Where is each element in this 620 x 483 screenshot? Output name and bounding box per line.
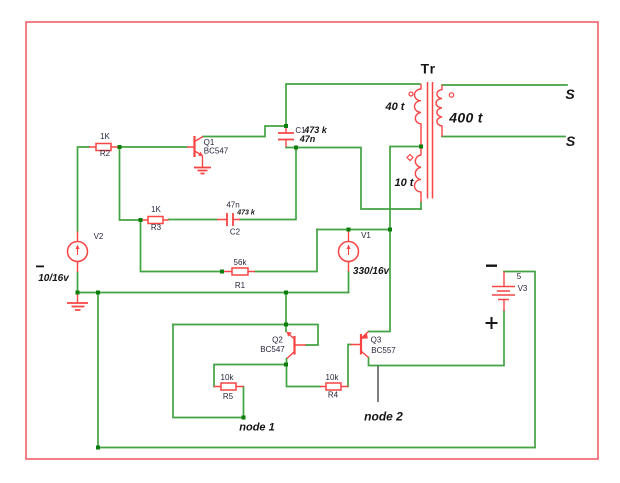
svg-text:56k: 56k [234, 258, 248, 267]
node C1 top junction [284, 124, 288, 128]
wire C1 bottom to 10t winding bottom [286, 148, 421, 210]
svg-text:BC557: BC557 [371, 346, 396, 355]
svg-text:BC547: BC547 [204, 147, 229, 156]
svg-text:330/16v: 330/16v [353, 266, 391, 277]
wire ground rail [78, 292, 349, 294]
resistor R1 [222, 268, 255, 275]
source V2 [68, 232, 88, 273]
wire long left vertical to bottom rail [97, 293, 99, 448]
node transformer center tap junction [419, 145, 423, 149]
svg-text:10 t: 10 t [395, 177, 415, 189]
wire right vertical up to V3 plus [504, 272, 535, 448]
svg-text:10k: 10k [221, 373, 235, 382]
capacitor C1 [278, 127, 294, 147]
wire transformer center tap to Q3 emitter [369, 147, 422, 332]
wire base row to Q1 [121, 146, 187, 148]
svg-text:S: S [566, 133, 576, 149]
svg-text:C2: C2 [230, 228, 241, 237]
node V1 top junction [347, 228, 351, 232]
wire R2 left corner and V2 top vertical [78, 147, 90, 232]
wire C1 junction down to C2 right [240, 148, 296, 220]
svg-text:1K: 1K [100, 132, 110, 141]
node bottom rail left junction [96, 446, 100, 450]
wire R3 junction down to R1 left [141, 220, 223, 272]
svg-text:node 1: node 1 [239, 422, 274, 434]
svg-text:473 k: 473 k [236, 210, 256, 217]
svg-text:40 t: 40 t [385, 101, 406, 113]
resistor R4 [320, 383, 348, 390]
svg-text:BC547: BC547 [260, 345, 285, 354]
resistor R3 [141, 217, 169, 224]
svg-text:1K: 1K [151, 205, 161, 214]
battery V3 [492, 272, 515, 312]
svg-text:R5: R5 [223, 392, 234, 401]
transistor Q2 [287, 332, 306, 359]
capacitor C2 [217, 213, 240, 226]
transformer winding 400t [436, 85, 442, 137]
wire secondary top rail to S [442, 84, 567, 86]
svg-text:S: S [565, 86, 575, 102]
source V1 [339, 231, 359, 272]
wire V2 bottom to ground rail [77, 272, 79, 293]
svg-text:47n: 47n [226, 201, 239, 210]
transformer Tr core [428, 82, 433, 199]
svg-text:Q3: Q3 [371, 336, 382, 345]
svg-text:V1: V1 [361, 231, 371, 240]
svg-text:R4: R4 [328, 391, 339, 400]
node R1 left junction [220, 270, 224, 274]
node C1 bottom junction [294, 146, 298, 150]
ground under V2 [67, 293, 88, 311]
wire Q2 base loop left and node1 bottom [173, 325, 244, 418]
battery V3 plus sign [486, 317, 498, 329]
wire bottom rail [98, 447, 535, 449]
wire ground rail down to Q2 emitter [285, 293, 287, 332]
battery V3 minus sign [486, 265, 497, 267]
svg-text:R2: R2 [100, 149, 111, 158]
ground under Q1 [194, 168, 211, 174]
node Q2 collector junction [284, 363, 288, 367]
node V1 row right junction [388, 228, 392, 232]
resistor R2 [89, 144, 119, 151]
svg-text:Q2: Q2 [272, 336, 283, 345]
wire Q2 collector down and R4 row [287, 359, 321, 387]
svg-text:Tr: Tr [421, 61, 437, 77]
wire V1 bottom drop [348, 272, 350, 293]
winding 10t polarity dot [407, 155, 413, 161]
wire Q2 base loop top [173, 325, 318, 346]
svg-text:47n: 47n [299, 134, 316, 144]
winding 40t polarity dot [409, 92, 413, 96]
wire Q1 collector to C1 top junction [203, 126, 286, 137]
wire R2 junction down to R3 row [120, 147, 141, 220]
svg-text:10/16v: 10/16v [38, 273, 70, 284]
wire R1 right to V1 row [255, 230, 317, 272]
node V2 ground junction [76, 291, 80, 295]
transformer winding 40t [415, 84, 421, 147]
node Q2 emitter rail junction [284, 291, 288, 295]
wire secondary bottom rail to S [442, 136, 565, 138]
node 1 junction [242, 416, 246, 420]
svg-text:400 t: 400 t [448, 110, 483, 126]
transistor Q3 [351, 332, 369, 358]
svg-text:5: 5 [517, 272, 522, 281]
wire top rail from C1 top to transformer primary [286, 84, 420, 126]
transformer winding 10t [415, 147, 421, 203]
node Q2 base loop junction [284, 323, 288, 327]
wire 10t bottom green tail [420, 202, 422, 209]
wire R5 left up to collector node [214, 365, 286, 387]
node R2 right junction [118, 145, 122, 149]
node R3 left junction [139, 218, 143, 222]
node ground rail left junction [96, 291, 100, 295]
wire R3 right to C2 left [169, 219, 218, 221]
svg-text:R1: R1 [235, 281, 246, 290]
resistor R5 [214, 383, 244, 390]
winding 400t polarity dot [449, 93, 453, 97]
wire V3 bottom to Q3 collector row [369, 311, 505, 366]
node 2 pointer line [377, 366, 379, 402]
transistor Q1 [187, 136, 203, 167]
wire V1 top row [317, 229, 390, 231]
svg-text:V2: V2 [94, 232, 104, 241]
svg-text:node 2: node 2 [364, 410, 403, 424]
svg-text:V3: V3 [518, 284, 528, 293]
wire node1 up to R5 right [243, 387, 245, 418]
label V2 minus sign [36, 266, 44, 268]
svg-text:R3: R3 [151, 223, 162, 232]
svg-text:10k: 10k [326, 373, 340, 382]
wire R4 right up to Q3 base [348, 345, 351, 387]
